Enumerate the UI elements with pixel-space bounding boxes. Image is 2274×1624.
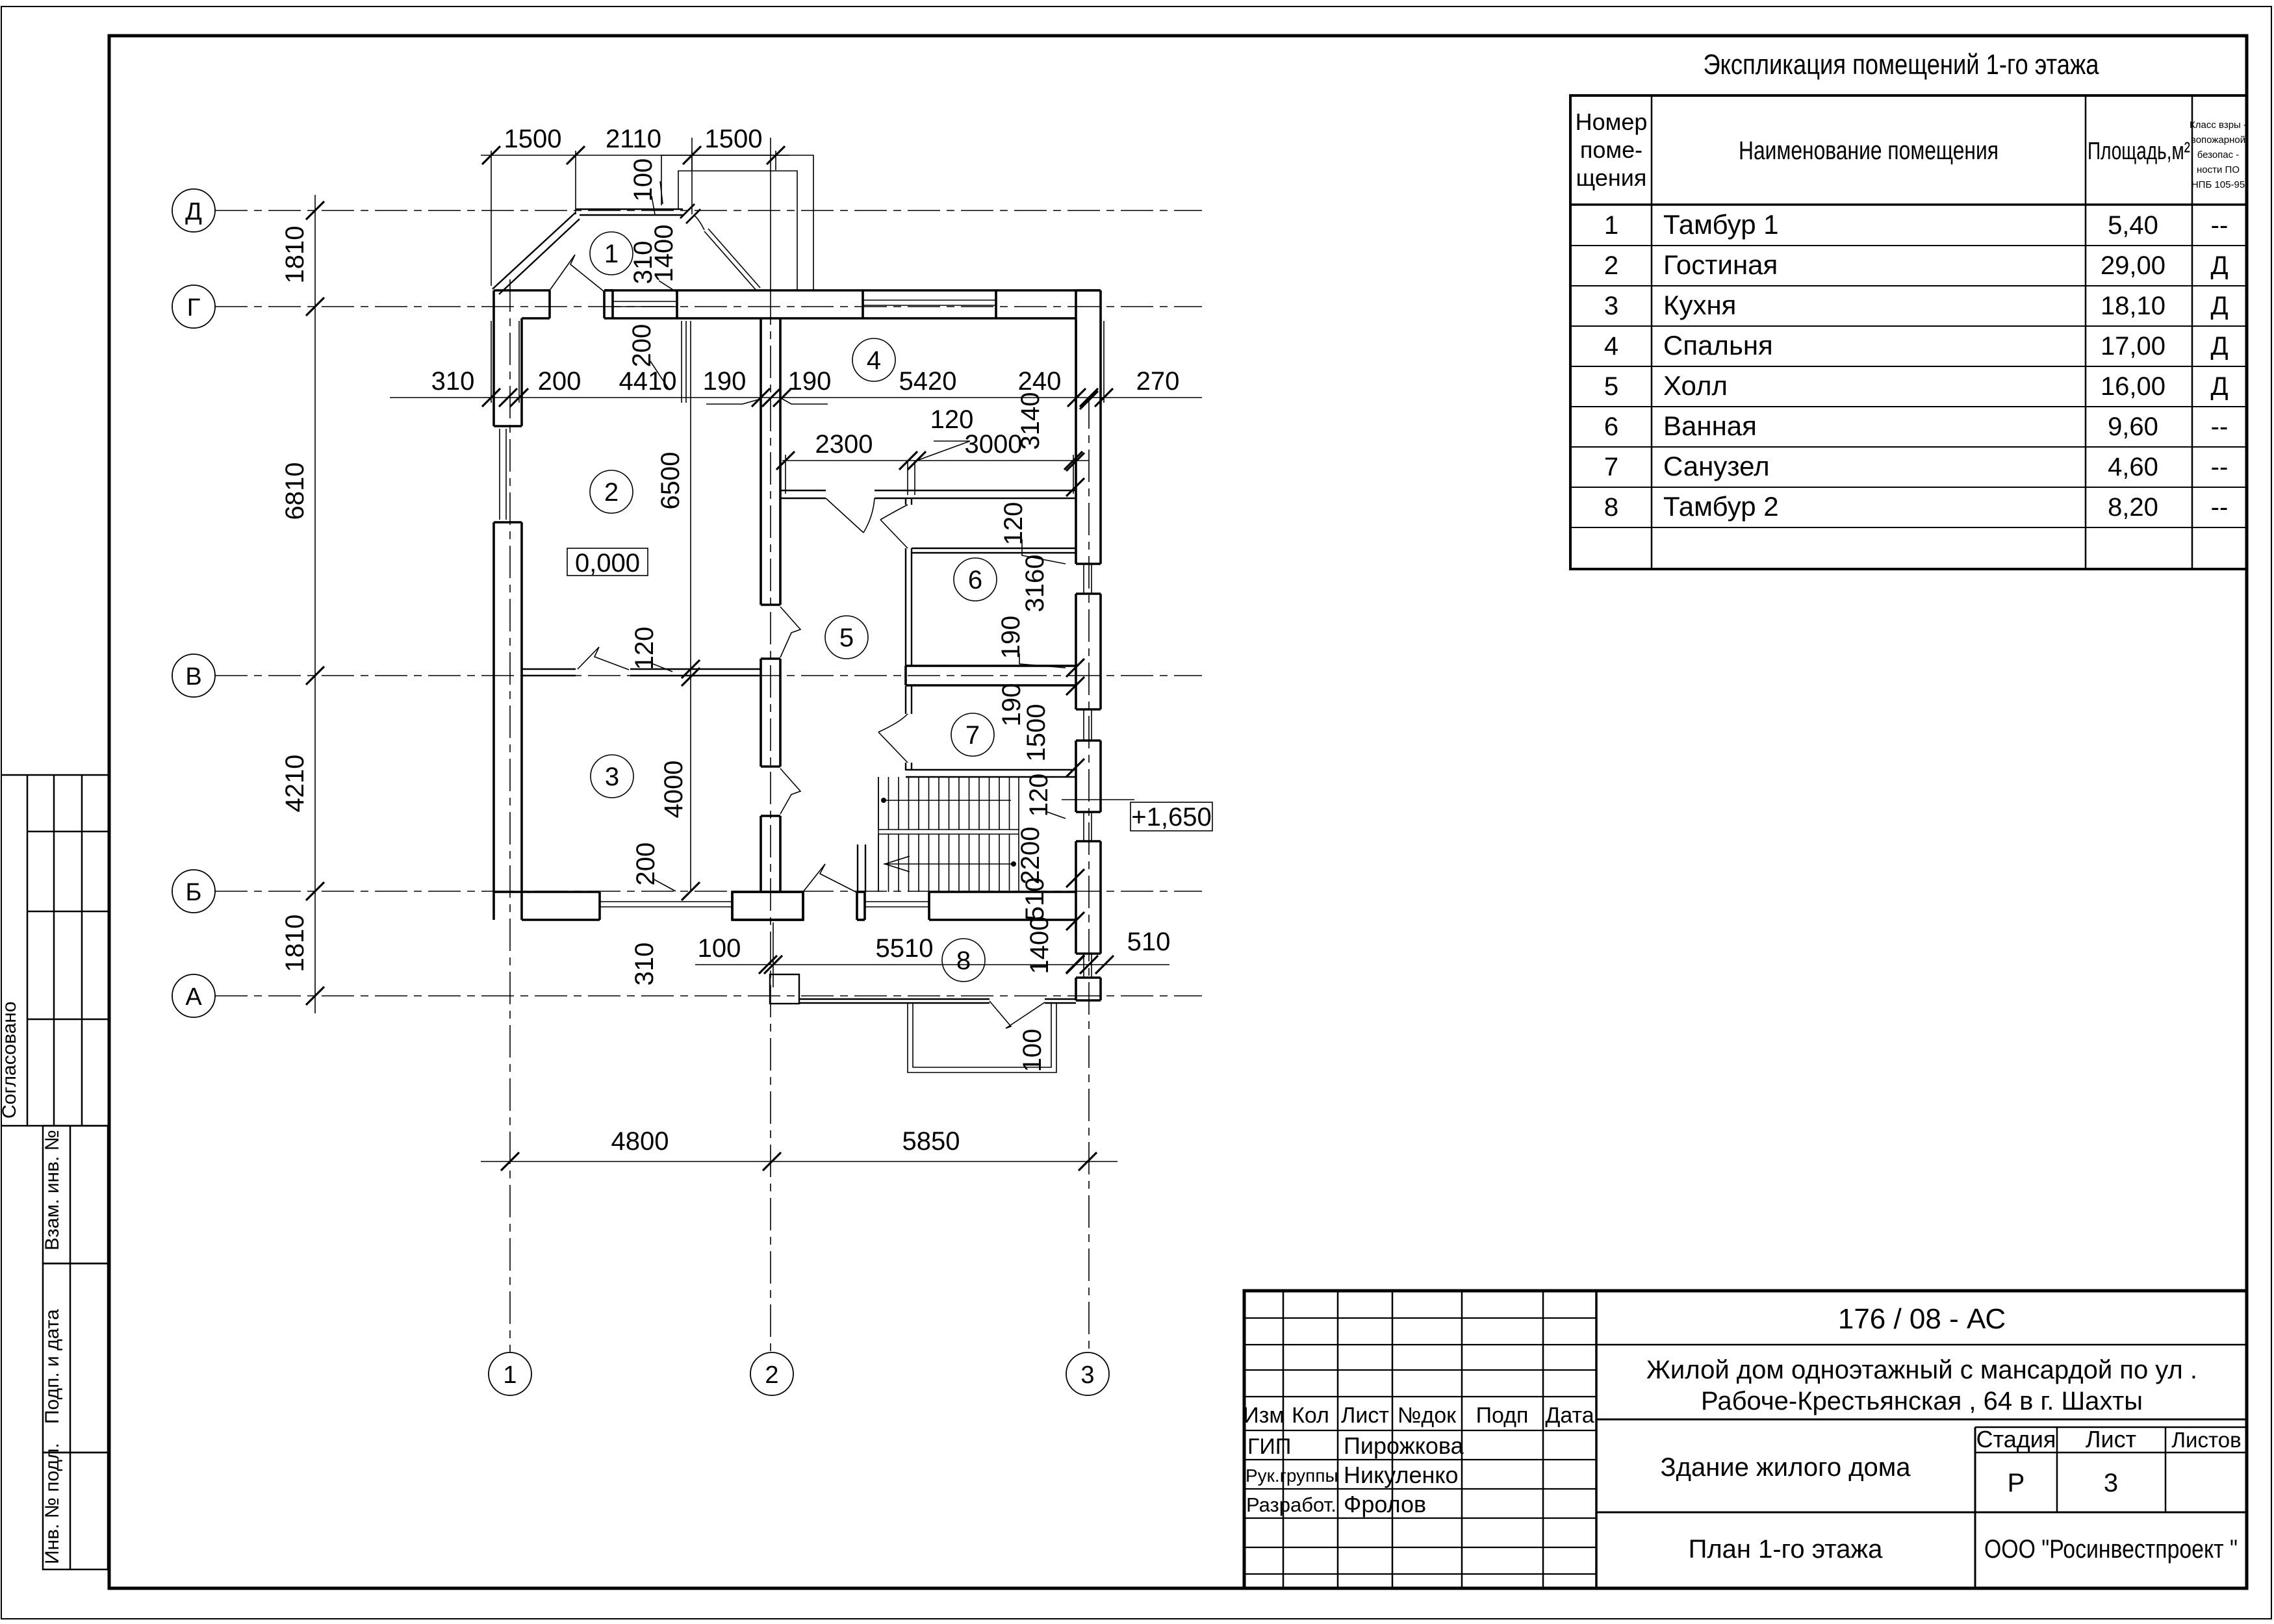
svg-text:5,40: 5,40 bbox=[2108, 211, 2158, 240]
axis 3 line bbox=[1088, 396, 1090, 1352]
svg-text:Дата: Дата bbox=[1545, 1403, 1594, 1428]
svg-text:5: 5 bbox=[839, 624, 854, 652]
svg-text:--: -- bbox=[2211, 493, 2229, 522]
top wall window 2 bbox=[863, 299, 996, 301]
svg-text:Д: Д bbox=[2210, 251, 2228, 280]
svg-text:5420: 5420 bbox=[899, 367, 957, 396]
svg-text:16,00: 16,00 bbox=[2101, 372, 2165, 401]
svg-text:--: -- bbox=[2211, 453, 2229, 481]
svg-text:6500: 6500 bbox=[656, 452, 685, 510]
svg-text:+1,650: +1,650 bbox=[1131, 803, 1211, 831]
svg-text:вопожарной: вопожарной bbox=[2191, 134, 2245, 146]
svg-text:176 / 08 - АС: 176 / 08 - АС bbox=[1838, 1303, 2006, 1335]
svg-text:Ванная: Ванная bbox=[1663, 411, 1757, 441]
room circle 1 bbox=[590, 232, 633, 275]
door room2-room3 bbox=[578, 647, 629, 670]
svg-text:6: 6 bbox=[1604, 412, 1618, 441]
svg-text:Г: Г bbox=[187, 294, 201, 322]
svg-text:2: 2 bbox=[765, 1362, 778, 1389]
svg-text:5850: 5850 bbox=[902, 1127, 960, 1156]
stairs upper arrow bbox=[884, 800, 1011, 801]
svg-text:Наименование помещения: Наименование помещения bbox=[1739, 136, 1999, 165]
dimension line 5510 bbox=[695, 964, 1169, 965]
interior wall on axis 2 bbox=[760, 318, 762, 605]
svg-text:1: 1 bbox=[604, 240, 619, 268]
svg-text:200: 200 bbox=[632, 843, 660, 886]
svg-text:29,00: 29,00 bbox=[2101, 251, 2165, 280]
svg-text:8,20: 8,20 bbox=[2108, 493, 2158, 522]
svg-text:100: 100 bbox=[1018, 1029, 1047, 1072]
svg-text:безопас -: безопас - bbox=[2197, 149, 2240, 160]
svg-text:7: 7 bbox=[965, 721, 980, 750]
svg-text:1: 1 bbox=[1604, 211, 1618, 240]
svg-text:Д: Д bbox=[2210, 292, 2228, 320]
svg-text:510: 510 bbox=[1021, 878, 1049, 921]
left "Согласовано" table bbox=[1, 774, 108, 776]
svg-text:2200: 2200 bbox=[1016, 827, 1045, 885]
svg-text:Рук.группы: Рук.группы bbox=[1246, 1465, 1338, 1486]
axis В line bbox=[215, 675, 1202, 676]
bottom wall windows bbox=[600, 901, 732, 902]
left block "Инв. № подл." bbox=[43, 1453, 108, 1569]
room circle 7 bbox=[951, 713, 994, 756]
svg-text:А: А bbox=[185, 983, 202, 1011]
partition room6 top bbox=[912, 548, 1076, 549]
svg-text:--: -- bbox=[2211, 412, 2229, 441]
svg-text:270: 270 bbox=[1136, 367, 1180, 396]
svg-text:Взам. инв. №: Взам. инв. № bbox=[42, 1130, 63, 1250]
exterior top wall (axis Г) bbox=[494, 289, 550, 292]
svg-text:Тамбур 2: Тамбур 2 bbox=[1663, 491, 1779, 522]
svg-text:Санузел: Санузел bbox=[1663, 451, 1770, 481]
svg-text:План 1-го этажа: План 1-го этажа bbox=[1689, 1535, 1884, 1564]
svg-text:3140: 3140 bbox=[1016, 392, 1045, 450]
svg-text:0,000: 0,000 bbox=[575, 549, 640, 577]
svg-text:510: 510 bbox=[1127, 928, 1171, 956]
axis circle А bbox=[172, 974, 215, 1017]
level mark 0,000 bbox=[567, 548, 648, 576]
svg-text:1500: 1500 bbox=[1022, 704, 1051, 762]
explication table grid bbox=[1570, 95, 2247, 569]
svg-text:4410: 4410 bbox=[619, 367, 677, 396]
exterior left wall bbox=[492, 290, 495, 426]
partition room4 bottom bbox=[780, 490, 826, 491]
room circle 4 bbox=[852, 338, 895, 381]
room circle 8 bbox=[942, 939, 985, 982]
svg-text:17,00: 17,00 bbox=[2101, 332, 2165, 361]
door room3-hall (axis2 wall lower) bbox=[780, 768, 800, 814]
porch below tambour2 bbox=[908, 1003, 1056, 1072]
dimension line 2300-3000 bbox=[782, 460, 1089, 461]
svg-text:НПБ 105-95: НПБ 105-95 bbox=[2191, 179, 2245, 190]
tambour2 pier column bbox=[770, 974, 799, 1004]
svg-text:4: 4 bbox=[1604, 332, 1618, 361]
svg-text:9,60: 9,60 bbox=[2108, 412, 2158, 441]
left block "Взам. инв. №" bbox=[43, 1126, 108, 1263]
stairs treads bbox=[878, 777, 879, 830]
svg-text:Подп. и дата: Подп. и дата bbox=[42, 1309, 63, 1424]
dimension line below Г bbox=[390, 397, 1202, 398]
partition hall5 / rooms 6-7 bbox=[905, 498, 906, 505]
bottom main dimension bbox=[481, 1161, 1118, 1162]
door hall-room4 bbox=[826, 498, 863, 533]
svg-text:190: 190 bbox=[788, 367, 832, 396]
svg-text:200: 200 bbox=[538, 367, 581, 396]
svg-text:2110: 2110 bbox=[606, 125, 661, 153]
svg-text:Д: Д bbox=[185, 198, 202, 225]
svg-text:4800: 4800 bbox=[611, 1127, 669, 1156]
svg-text:Б: Б bbox=[186, 879, 202, 906]
exterior bottom wall (axis Б) bbox=[494, 891, 600, 893]
svg-text:8: 8 bbox=[956, 946, 971, 975]
partition room2/room3 bbox=[522, 668, 576, 670]
axis Д line bbox=[215, 210, 1202, 211]
porch at top bbox=[661, 155, 813, 290]
svg-text:ности ПО: ности ПО bbox=[2197, 164, 2240, 175]
svg-text:3160: 3160 bbox=[1021, 555, 1049, 613]
room circle 3 bbox=[591, 755, 633, 798]
svg-text:Кухня: Кухня bbox=[1663, 290, 1736, 320]
svg-text:Тамбур 1: Тамбур 1 bbox=[1663, 209, 1779, 240]
axis Г line bbox=[215, 306, 1202, 307]
svg-text:18,10: 18,10 bbox=[2101, 292, 2165, 320]
left block "Подп. и дата" bbox=[43, 1263, 108, 1453]
top dimension line bbox=[481, 155, 789, 156]
svg-text:Кол: Кол bbox=[1292, 1403, 1329, 1428]
svg-text:Класс взры -: Класс взры - bbox=[2190, 120, 2247, 131]
interior vertical extension line bbox=[690, 321, 691, 891]
level mark +1,650 bbox=[1062, 799, 1134, 800]
axis circle Д bbox=[172, 189, 215, 232]
door hall-room7 bbox=[878, 732, 908, 763]
axis 1 line bbox=[509, 279, 511, 1352]
svg-text:Холл: Холл bbox=[1663, 370, 1728, 401]
svg-text:Лист: Лист bbox=[2086, 1426, 2136, 1453]
axis circle 3 bbox=[1066, 1352, 1109, 1395]
svg-text:Пирожкова: Пирожкова bbox=[1344, 1432, 1464, 1459]
axis А line bbox=[215, 995, 1202, 996]
svg-text:4000: 4000 bbox=[659, 761, 688, 818]
svg-text:Жилой дом одноэтажный с мансар: Жилой дом одноэтажный с мансардой по ул … bbox=[1646, 1356, 2197, 1384]
svg-text:4210: 4210 bbox=[281, 755, 309, 813]
svg-text:Спальня: Спальня bbox=[1663, 330, 1773, 361]
svg-text:Р: Р bbox=[2008, 1469, 2025, 1497]
svg-text:4,60: 4,60 bbox=[2108, 453, 2158, 481]
wall rooms6/7 on axis В bbox=[906, 665, 1076, 667]
svg-text:5: 5 bbox=[1604, 372, 1618, 401]
svg-text:Стадия: Стадия bbox=[1976, 1426, 2056, 1453]
door hall-tambour2 (in Б wall) bbox=[803, 864, 857, 893]
room circle 6 bbox=[954, 558, 997, 601]
axis circle 2 bbox=[750, 1352, 793, 1395]
svg-text:Изм: Изм bbox=[1243, 1403, 1284, 1428]
left wall window bbox=[499, 429, 500, 520]
svg-text:Фролов: Фролов bbox=[1344, 1491, 1426, 1517]
axis circle 1 bbox=[489, 1352, 531, 1395]
axis circle Б bbox=[172, 870, 215, 913]
svg-text:Согласовано: Согласовано bbox=[0, 1002, 20, 1119]
svg-text:6810: 6810 bbox=[281, 463, 309, 520]
svg-text:1400: 1400 bbox=[650, 225, 678, 283]
bay (tambour1) walls bbox=[492, 212, 576, 289]
partition left of stairs bbox=[857, 844, 858, 892]
svg-text:Инв. № подл.: Инв. № подл. bbox=[42, 1443, 63, 1564]
svg-text:щения: щения bbox=[1576, 164, 1647, 191]
svg-text:1500: 1500 bbox=[705, 125, 763, 153]
door tambour2-porch bbox=[990, 1001, 1045, 1028]
leaders for 190/190 bbox=[706, 399, 761, 404]
stairs lower arrow bbox=[884, 863, 1014, 865]
svg-text:Гостиная: Гостиная bbox=[1663, 249, 1778, 280]
svg-text:5510: 5510 bbox=[876, 934, 934, 963]
entrance door at bay/porch corner bbox=[680, 204, 695, 218]
door tambour1-livingroom (in Г wall) bbox=[550, 255, 604, 292]
svg-text:2: 2 bbox=[604, 478, 619, 507]
svg-text:Разработ.: Разработ. bbox=[1246, 1493, 1336, 1516]
svg-text:ООО "Росинвестпроект ": ООО "Росинвестпроект " bbox=[1984, 1535, 2238, 1564]
svg-text:1500: 1500 bbox=[504, 125, 562, 153]
svg-text:3: 3 bbox=[605, 763, 619, 791]
svg-text:Экспликация помещений 1-го эта: Экспликация помещений 1-го этажа bbox=[1704, 49, 2099, 81]
partition room7 bottom bbox=[906, 769, 1076, 770]
svg-text:ГИП: ГИП bbox=[1247, 1434, 1291, 1459]
svg-text:Подп: Подп bbox=[1476, 1403, 1529, 1428]
title block outer bbox=[1244, 1291, 2247, 1588]
svg-text:3: 3 bbox=[2104, 1469, 2118, 1497]
svg-text:Листов: Листов bbox=[2171, 1428, 2241, 1452]
svg-text:--: -- bbox=[2211, 211, 2229, 240]
axis 2 line bbox=[770, 292, 771, 1352]
svg-text:200: 200 bbox=[628, 324, 656, 368]
svg-text:4: 4 bbox=[867, 346, 881, 375]
svg-text:2: 2 bbox=[1604, 251, 1618, 280]
svg-text:Никуленко: Никуленко bbox=[1344, 1462, 1459, 1488]
svg-text:Рабоче-Крестьянская , 64 в г.: Рабоче-Крестьянская , 64 в г. Шахты bbox=[1701, 1387, 2143, 1415]
svg-text:Площадь,м²: Площадь,м² bbox=[2088, 138, 2190, 165]
tambour2 bottom wall bbox=[799, 998, 990, 1000]
exterior right wall bbox=[1075, 290, 1077, 564]
svg-text:Здание жилого дома: Здание жилого дома bbox=[1660, 1453, 1911, 1482]
svg-text:310: 310 bbox=[431, 367, 475, 396]
svg-text:поме-: поме- bbox=[1580, 136, 1642, 163]
axis circle В bbox=[172, 654, 215, 697]
svg-text:№док: №док bbox=[1398, 1403, 1457, 1428]
svg-text:В: В bbox=[185, 663, 201, 691]
axis2/Б wall junction block bbox=[732, 892, 803, 920]
axis Б line bbox=[215, 891, 1202, 892]
svg-text:310: 310 bbox=[630, 943, 659, 986]
left dimension line bbox=[314, 195, 316, 1013]
room circle 2 bbox=[590, 470, 633, 513]
svg-text:3000: 3000 bbox=[965, 430, 1023, 459]
svg-text:1400: 1400 bbox=[1025, 917, 1054, 974]
svg-text:2300: 2300 bbox=[815, 430, 873, 459]
svg-text:3: 3 bbox=[1604, 292, 1618, 320]
top wall window 1 bbox=[613, 301, 677, 302]
svg-text:7: 7 bbox=[1604, 453, 1618, 481]
svg-text:120: 120 bbox=[930, 405, 974, 434]
stairs landing lines bbox=[878, 829, 1019, 830]
door hall-room6 bbox=[880, 520, 908, 548]
title block left grid bbox=[1283, 1291, 1284, 1588]
svg-text:120: 120 bbox=[630, 627, 659, 670]
svg-text:Номер: Номер bbox=[1576, 108, 1648, 135]
right wall windows bbox=[1083, 564, 1084, 594]
svg-text:120: 120 bbox=[1025, 774, 1053, 817]
svg-text:Д: Д bbox=[2210, 332, 2228, 361]
svg-text:1810: 1810 bbox=[281, 915, 309, 972]
svg-text:190: 190 bbox=[703, 367, 747, 396]
svg-text:1810: 1810 bbox=[281, 226, 309, 284]
svg-text:190: 190 bbox=[997, 616, 1025, 659]
svg-text:8: 8 bbox=[1604, 493, 1618, 522]
title block right part bbox=[1596, 1344, 2247, 1346]
svg-text:1: 1 bbox=[503, 1362, 517, 1389]
svg-text:120: 120 bbox=[999, 502, 1028, 546]
svg-text:6: 6 bbox=[968, 566, 982, 594]
svg-text:Лист: Лист bbox=[1341, 1403, 1389, 1428]
svg-text:3: 3 bbox=[1080, 1362, 1094, 1389]
door room2-hall (axis2 wall upper) bbox=[780, 607, 800, 657]
axis circle Г bbox=[172, 285, 215, 328]
svg-text:100: 100 bbox=[698, 934, 741, 963]
svg-text:240: 240 bbox=[1018, 367, 1062, 396]
room circle 5 bbox=[825, 616, 868, 659]
svg-text:Д: Д bbox=[2210, 372, 2228, 401]
svg-text:100: 100 bbox=[629, 159, 658, 202]
